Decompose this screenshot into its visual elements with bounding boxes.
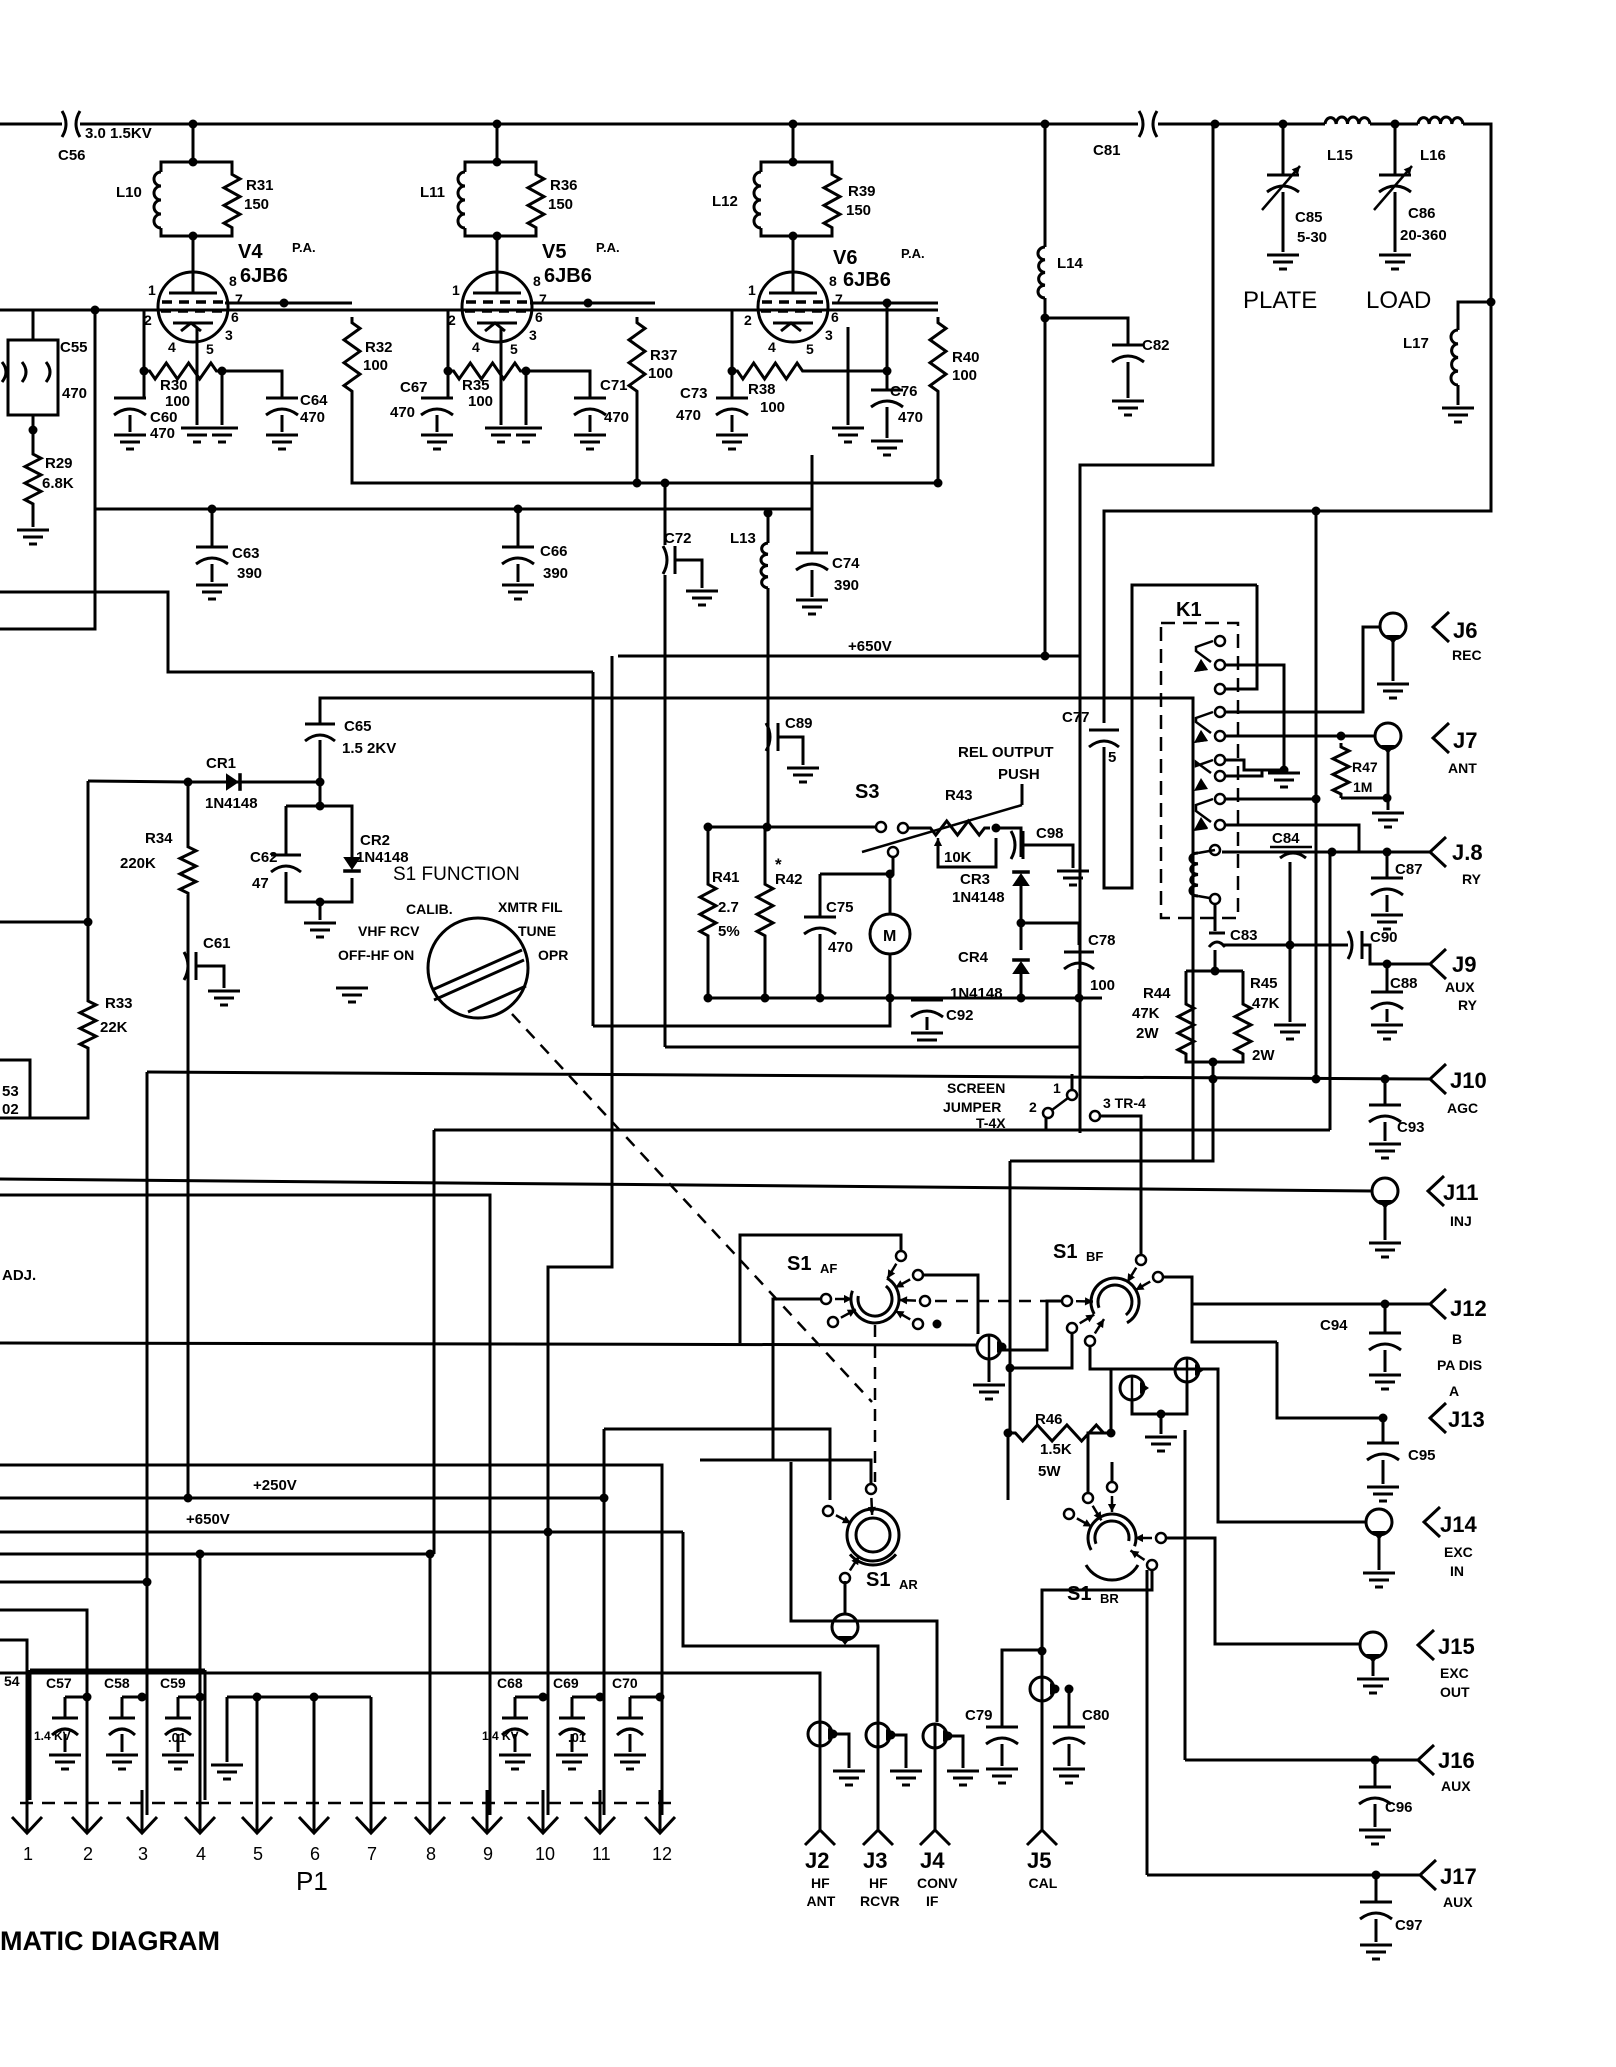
node C93 top: [1381, 1075, 1390, 1084]
wire K1 coil bottom down: [1214, 905, 1217, 931]
wire V5 grid2 down: [525, 371, 528, 425]
svg-text:CAL: CAL: [1029, 1875, 1058, 1891]
wire C72 riser: [664, 483, 667, 545]
node y922: [84, 918, 93, 927]
capacitor C62: [271, 855, 301, 872]
S1BF c3 contact: [1062, 1296, 1072, 1306]
node tank L10 bottom: [189, 232, 198, 241]
svg-text:J5: J5: [1027, 1848, 1051, 1873]
S1BF c3 arrow: [1076, 1300, 1093, 1303]
capacitor C88: [1371, 992, 1403, 1009]
wire 567 gnd stub: [226, 1697, 229, 1762]
tube V5: [462, 234, 532, 342]
svg-text:AUX: AUX: [1441, 1778, 1471, 1794]
svg-text:OPR: OPR: [538, 947, 568, 963]
wire S1BR c3 lead: [1166, 1538, 1361, 1644]
resistor R36: [528, 170, 544, 232]
svg-text:7: 7: [835, 291, 843, 307]
ground under C66: [502, 585, 534, 599]
svg-text:P1: P1: [296, 1866, 328, 1896]
svg-text:8: 8: [229, 273, 237, 289]
contact S3 a: [876, 822, 886, 832]
svg-text:R34: R34: [145, 830, 173, 847]
wire S1AR c1 riser: [700, 1460, 871, 1484]
wire C60 gnd stub: [129, 415, 132, 432]
svg-text:150: 150: [846, 202, 871, 219]
svg-text:C83: C83: [1230, 927, 1258, 944]
wire K1 c9 to J8: [1226, 825, 1359, 852]
node R37 screen rail: [633, 479, 642, 488]
ground under C97: [1360, 1945, 1392, 1959]
switch S1BR arc2: [1086, 1565, 1138, 1580]
wire cap gnd 630: [629, 1734, 632, 1752]
resistor R45: [1235, 1000, 1251, 1058]
wire L15-L16: [1370, 123, 1418, 126]
wire C73 drop: [731, 371, 734, 398]
ground under C88: [1371, 1025, 1403, 1039]
wire C80 link: [1068, 1689, 1071, 1727]
wire J6 gnd: [1392, 639, 1395, 681]
connector J4 arrow: [920, 1830, 950, 1845]
S1AF c5 arrow: [835, 1298, 852, 1301]
S1BR c4 arrow: [1130, 1550, 1144, 1560]
wire screen rail: [352, 397, 938, 483]
wire tank R31 frame: [193, 162, 232, 170]
svg-text:8: 8: [533, 273, 541, 289]
wire J11 gnd: [1384, 1204, 1387, 1240]
contact K1 coil bottom: [1210, 894, 1220, 904]
svg-text:PA DIS: PA DIS: [1437, 1357, 1482, 1373]
wire K1 armature 641: [1196, 641, 1213, 662]
capacitor C76: [871, 390, 903, 407]
ground under R29: [17, 530, 49, 544]
wire J3 riser: [877, 1723, 880, 1830]
resistor R41: [700, 880, 716, 940]
wire cap gnd 65: [64, 1734, 67, 1752]
node V5 tank tap: [493, 120, 502, 129]
wire CR3-CR4: [1020, 886, 1023, 950]
wire bus to tank L10: [192, 124, 195, 162]
node p5: [253, 1693, 262, 1702]
svg-text:1N4148: 1N4148: [205, 795, 258, 812]
connector P1 pin 1 arrow: [12, 1790, 42, 1833]
wire L14 plate feed: [1044, 318, 1047, 656]
svg-text:RCVR: RCVR: [860, 1893, 900, 1909]
node C88 top: [1383, 960, 1392, 969]
switch S1 FUNCTION slot: [432, 950, 526, 1012]
node C62 top: [316, 802, 325, 811]
node CR1 out: [316, 778, 325, 787]
switch S1AR rotor: [847, 1509, 899, 1561]
svg-text:J14: J14: [1440, 1512, 1477, 1537]
connector J14: [1366, 1509, 1392, 1535]
wire CR1 wire: [188, 781, 320, 784]
diode CR4: [1012, 961, 1030, 974]
svg-text:C73: C73: [680, 385, 708, 402]
wire tank L11 frame: [465, 162, 497, 172]
capacitor C87: [1371, 878, 1403, 895]
svg-text:C75: C75: [826, 899, 854, 916]
wire C93 gnd stub: [1384, 1122, 1387, 1141]
resistor R37: [629, 317, 645, 397]
node V4 tank tap: [189, 120, 198, 129]
ground under J14: [1363, 1573, 1395, 1587]
svg-text:ANT: ANT: [1448, 760, 1477, 776]
ground under C82: [1112, 401, 1144, 415]
wire K1 c5 to J7: [1226, 735, 1376, 738]
svg-text:2W: 2W: [1252, 1047, 1275, 1064]
contact K1-2: [1215, 660, 1225, 670]
svg-text:R41: R41: [712, 869, 740, 886]
node 650v tap: [544, 1528, 553, 1537]
wire S3 to R43: [908, 827, 925, 830]
connector P1 pin 2 arrow: [72, 1790, 102, 1833]
node rail R42: [761, 994, 770, 1003]
arrow K1 armature 641b: [1194, 659, 1208, 672]
bracket J7: [1433, 723, 1449, 753]
svg-text:AUX: AUX: [1445, 979, 1475, 995]
wire C55 to R29: [32, 415, 35, 450]
wire cap link 65: [65, 1696, 87, 1699]
relay K1 dashed box: [1161, 623, 1238, 918]
svg-text:R35: R35: [462, 377, 490, 394]
wire C88 gnd stub: [1386, 1009, 1389, 1022]
wire C62 frame left: [285, 806, 288, 820]
wire S1BR c5 stub: [1111, 1462, 1114, 1482]
wire CR4 bottom: [1020, 974, 1023, 998]
wire V6 cathode down: [847, 327, 850, 425]
inductor L17: [1451, 330, 1458, 385]
feedthrough J4: [923, 1724, 947, 1748]
wire K1 c2 to gnd: [1226, 665, 1284, 770]
capacitor C75: [804, 917, 836, 934]
wire C67 drop: [447, 371, 450, 398]
wire R46 left riser: [1008, 1161, 1010, 1500]
node L13 tap: [764, 509, 773, 518]
svg-text:OUT: OUT: [1440, 1684, 1470, 1700]
ground OFF position: [336, 988, 368, 1002]
S1BR c1 arrow: [1077, 1518, 1092, 1526]
wire rail y1640 pin1: [0, 1640, 27, 1815]
svg-text:1.4 KV: 1.4 KV: [482, 1729, 519, 1743]
svg-text:IN: IN: [1450, 1563, 1464, 1579]
svg-text:C86: C86: [1408, 205, 1436, 222]
wire p4 riser: [199, 1554, 202, 1790]
wire L13 top: [767, 513, 770, 543]
svg-text:R46: R46: [1035, 1411, 1063, 1428]
wire S3 left rail: [708, 826, 876, 829]
node C87 top: [1383, 848, 1392, 857]
svg-text:100: 100: [760, 399, 785, 416]
wire rail y1610 pin2: [0, 1610, 87, 1815]
svg-text:1M: 1M: [1353, 779, 1372, 795]
svg-text:V6: V6: [833, 247, 857, 269]
wire J12 line: [1192, 1303, 1430, 1306]
svg-text:390: 390: [543, 565, 568, 582]
bracket J12: [1430, 1289, 1446, 1319]
node R46 left: [1004, 1429, 1013, 1438]
wire cap gnd 178: [177, 1734, 180, 1752]
node C95 top: [1379, 1414, 1388, 1423]
svg-text:L13: L13: [730, 530, 756, 547]
svg-text:P.A.: P.A.: [901, 246, 925, 261]
svg-text:470: 470: [300, 409, 325, 426]
node R41 top: [704, 823, 713, 832]
svg-text:4: 4: [196, 1844, 206, 1864]
ground under J11: [1369, 1243, 1401, 1257]
wire M bottom: [889, 953, 892, 998]
wire C86 top: [1394, 124, 1397, 175]
wire tank R39 frame: [793, 162, 832, 170]
wire C63 drop: [211, 509, 214, 547]
svg-text:C78: C78: [1088, 932, 1116, 949]
svg-text:CR1: CR1: [206, 755, 236, 772]
wire J3 ft gnd: [891, 1735, 906, 1768]
svg-text:470: 470: [604, 409, 629, 426]
wire R44 frame: [1186, 970, 1243, 973]
node rail CR4: [1017, 994, 1026, 1003]
bracket J15: [1418, 1630, 1434, 1660]
wire pin3 riser: [146, 1582, 149, 1815]
S1AF c1 contact: [896, 1251, 906, 1261]
node C85 tap: [1279, 120, 1288, 129]
connector P1 pin 3 arrow: [127, 1790, 157, 1833]
svg-text:+650V: +650V: [848, 638, 892, 655]
S1BR c4 contact: [1147, 1560, 1157, 1570]
svg-text:470: 470: [898, 409, 923, 426]
svg-text:5: 5: [806, 341, 814, 357]
svg-text:J17: J17: [1440, 1864, 1477, 1889]
svg-text:C66: C66: [540, 543, 568, 560]
ground under J6: [1377, 684, 1409, 698]
node C84 out: [1328, 848, 1337, 857]
svg-text:C92: C92: [946, 1007, 974, 1024]
svg-text:R38: R38: [748, 381, 776, 398]
wire C74 drop: [811, 455, 814, 553]
wire C87 stub: [1386, 852, 1389, 878]
bracket J13: [1430, 1403, 1446, 1433]
wire CR2 stubs: [351, 806, 354, 857]
capacitor C83: [1209, 933, 1225, 947]
node J5 top: [1038, 1647, 1047, 1656]
inductor K1 coil: [1190, 853, 1198, 896]
wire J16 riser: [1184, 1430, 1187, 1760]
ground under C61: [208, 991, 240, 1005]
svg-text:M: M: [883, 928, 896, 945]
capacitor C86 variable: [1379, 175, 1411, 192]
S1BR c3 arrow: [1135, 1537, 1152, 1540]
arrow K1 armature 641a: [1194, 659, 1208, 672]
svg-text:12: 12: [652, 1844, 672, 1864]
svg-text:C62: C62: [250, 849, 278, 866]
connector J6: [1380, 613, 1406, 639]
svg-text:L11: L11: [420, 184, 445, 201]
node rail M: [886, 994, 895, 1003]
wire R37 to screen rail: [636, 397, 639, 483]
contact S3 b: [898, 823, 908, 833]
wire CR1 input: [88, 781, 188, 782]
wire R42 bottom: [764, 940, 767, 998]
resistor R35: [448, 363, 526, 379]
contact K1-7: [1215, 771, 1225, 781]
ground under L17: [1442, 408, 1474, 422]
wire V5 screen jog: [530, 302, 655, 305]
wire V5 pin2 down: [447, 310, 450, 371]
svg-text:C69: C69: [553, 1675, 579, 1691]
svg-text:J2: J2: [805, 1848, 829, 1873]
S1BF c2 arrow: [1136, 1282, 1151, 1291]
node rail C75: [816, 994, 825, 1003]
svg-text:C58: C58: [104, 1675, 130, 1691]
wire top HV bus: [80, 123, 1138, 126]
node R35 right: [522, 367, 531, 376]
node L14 tap: [1041, 120, 1050, 129]
contact K1-1: [1215, 636, 1225, 646]
ground under C76: [871, 441, 903, 455]
wire +250V rail: [0, 1497, 604, 1500]
wire wire11 riser: [603, 1429, 606, 1815]
resistor R31: [224, 170, 240, 232]
switch S1 FUNCTION rotor: [428, 918, 528, 1018]
ground cap 515: [499, 1755, 531, 1769]
feedthrough FT3: [1175, 1358, 1199, 1382]
svg-text:V4: V4: [238, 241, 263, 263]
svg-text:53: 53: [2, 1083, 19, 1100]
wire FT3 drop: [1161, 1382, 1187, 1414]
svg-text:EXC: EXC: [1440, 1665, 1469, 1681]
svg-text:L16: L16: [1420, 147, 1446, 164]
ground J3 ft: [890, 1771, 922, 1785]
wire C83 down: [1214, 950, 1217, 971]
wire FT gnd stub: [1160, 1414, 1163, 1434]
wire rail y1554 pin8: [0, 1553, 430, 1556]
wire L14 bottom to C82: [1045, 298, 1128, 345]
wire K1 c6 gnd: [1226, 760, 1284, 770]
capacitor C61: [184, 952, 196, 980]
resistor R32: [344, 317, 360, 397]
ground V4 cathode: [181, 428, 213, 442]
svg-text:S1 FUNCTION: S1 FUNCTION: [393, 864, 520, 885]
wire cathode rail: [95, 508, 812, 511]
wire J17 line: [1147, 1874, 1420, 1877]
svg-text:CR2: CR2: [360, 832, 390, 849]
capacitor at 178: [165, 1718, 191, 1735]
ground under C93: [1369, 1144, 1401, 1158]
node cap tap 660: [656, 1693, 665, 1702]
wire R45 right: [1242, 971, 1245, 1000]
ground under C72: [686, 591, 718, 605]
S1AF c4 arrow: [896, 1311, 911, 1320]
node R44 R45 bottom: [1209, 1058, 1218, 1067]
svg-text:3: 3: [825, 327, 833, 343]
capacitor C77: [1089, 730, 1119, 747]
wire L16 to right corner: [1104, 124, 1491, 723]
svg-text:470: 470: [390, 404, 415, 421]
node J2 ft: [829, 1730, 838, 1739]
wire +650V rail: [0, 1531, 683, 1534]
dashed P1 line: [20, 1802, 672, 1805]
inductor L13: [761, 543, 768, 588]
wire S1AR bottom rail: [791, 1462, 937, 1722]
wire p2 drop2: [86, 1610, 89, 1790]
node FT gnd: [1157, 1410, 1166, 1419]
node V5 screen junction: [584, 299, 593, 308]
svg-text:C63: C63: [232, 545, 260, 562]
wire J8 line: [1222, 851, 1430, 854]
wire C85 top: [1282, 124, 1285, 175]
svg-text:L12: L12: [712, 193, 738, 210]
svg-text:100: 100: [363, 357, 388, 374]
wire C71 gnd stub: [589, 415, 592, 432]
contact K1-5: [1215, 731, 1225, 741]
wire C87 gnd stub: [1386, 895, 1389, 912]
diode CR3: [1012, 873, 1030, 886]
wire J10 left corner: [146, 1072, 149, 1582]
svg-text:C61: C61: [203, 935, 231, 952]
wire S3 bottom rail: [708, 997, 1102, 1000]
switch S1AF rotor: [851, 1278, 899, 1323]
feedthrough FT2: [1120, 1376, 1144, 1400]
svg-text:ANT: ANT: [807, 1893, 836, 1909]
svg-text:2W: 2W: [1136, 1025, 1159, 1042]
capacitor C94: [1369, 1333, 1401, 1350]
svg-text:1: 1: [23, 1844, 33, 1864]
bracket J10: [1430, 1064, 1446, 1094]
ground under C89: [787, 768, 819, 782]
svg-text:C95: C95: [1408, 1447, 1436, 1464]
svg-text:1: 1: [148, 282, 156, 298]
inductor L11: [458, 172, 465, 228]
capacitor C55 box: [8, 340, 58, 415]
svg-text:C81: C81: [1093, 142, 1121, 159]
wire S1BF c4 lead: [1010, 1333, 1072, 1368]
svg-text:J12: J12: [1450, 1296, 1487, 1321]
node J3 ft: [887, 1731, 896, 1740]
wire C98 to gnd: [1023, 845, 1073, 868]
wire C71 feed: [526, 371, 590, 398]
svg-text:VHF RCV: VHF RCV: [358, 923, 420, 939]
svg-text:CALIB.: CALIB.: [406, 901, 453, 917]
wire K1 armature 712: [1196, 712, 1213, 733]
wire S1BF c5 lead: [1090, 1346, 1367, 1522]
node pin8 top: [426, 1550, 435, 1559]
wire S1BR c4 lead: [1042, 1570, 1152, 1651]
wire bus to tank L12: [792, 124, 795, 162]
wire C72 to gnd: [675, 560, 702, 588]
svg-text:A: A: [1449, 1383, 1459, 1399]
wire R33 bottom: [30, 1052, 88, 1118]
svg-text:L15: L15: [1327, 147, 1353, 164]
wire CR2 lower: [320, 878, 352, 902]
svg-text:C74: C74: [832, 555, 860, 572]
wire rail y591: [0, 592, 593, 672]
ground under C79: [986, 1769, 1018, 1783]
wire R44R45 to J10: [1212, 1062, 1215, 1079]
capacitor C82: [1112, 345, 1144, 362]
capacitor at 515: [502, 1718, 528, 1735]
underline C84: [1270, 846, 1312, 849]
wire C63 gnd stub: [211, 564, 214, 582]
svg-text:R33: R33: [105, 995, 133, 1012]
ground under C64: [266, 435, 298, 449]
node cap tap 87: [83, 1693, 92, 1702]
svg-text:J16: J16: [1438, 1748, 1475, 1773]
node C75 top: [886, 870, 895, 879]
svg-text:11: 11: [592, 1844, 611, 1864]
contact K1-6: [1215, 755, 1225, 765]
svg-text:C97: C97: [1395, 1917, 1423, 1934]
wire J2 riser: [819, 1722, 822, 1830]
